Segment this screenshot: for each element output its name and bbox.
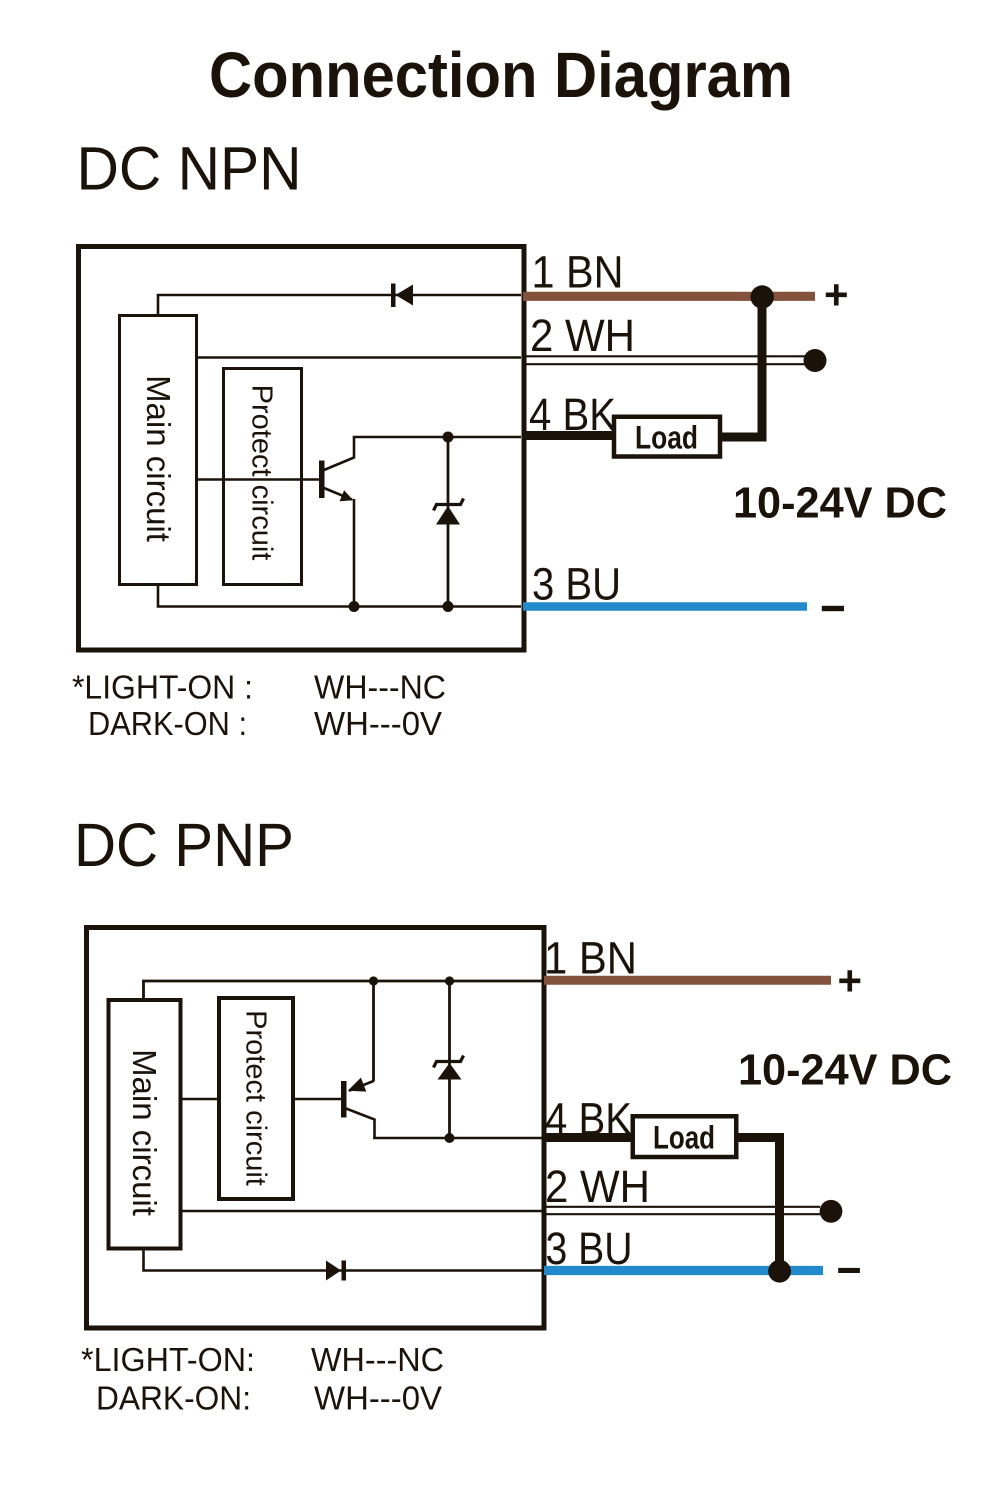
svg-text:*LIGHT-ON:: *LIGHT-ON: xyxy=(81,1341,255,1378)
junction: emitter/0V (NPN) xyxy=(349,601,360,612)
wire: +V top rail (PNP) xyxy=(144,981,545,998)
wire: load to BN vertical (NPN) xyxy=(721,300,762,437)
wire: Main-Protect-base link (NPN) xyxy=(197,478,320,481)
zener diode Z2 (PNP) xyxy=(434,1056,464,1080)
wire: emitter down to 0V rail (NPN) xyxy=(353,499,356,607)
wire: white WH output (PNP) xyxy=(544,1207,820,1214)
block: Protect circuit (NPN) xyxy=(224,369,302,585)
junction: BN/load node (NPN) xyxy=(751,285,774,308)
wire: black BK to load (NPN) xyxy=(523,431,614,440)
transistor Q1 emitter arrow (NPN) xyxy=(340,490,354,501)
block: Main circuit (PNP) xyxy=(109,1000,181,1249)
transistor Q1 collector lead (NPN) xyxy=(324,438,354,470)
terminal dot WH (PNP) xyxy=(820,1200,843,1223)
svg-text:DARK-ON :: DARK-ON : xyxy=(88,705,247,742)
svg-text:WH---0V: WH---0V xyxy=(314,1380,442,1417)
svg-text:Main circuit: Main circuit xyxy=(126,1049,163,1216)
zener diode Z1 lead (NPN) xyxy=(447,437,450,607)
wire: Main circuit top to BN rail (NPN) xyxy=(158,295,521,315)
transistor Q1 base bar (NPN) xyxy=(319,461,325,499)
wire: Main to pin 2 WH (PNP) xyxy=(179,1210,544,1213)
wire: black BK to load (PNP) xyxy=(544,1133,633,1142)
wire: blue BU supply (PNP) xyxy=(544,1266,823,1275)
svg-text:Load: Load xyxy=(635,420,698,456)
sensor outline box (NPN) xyxy=(79,247,525,651)
junction: zener/0V (NPN) xyxy=(443,601,454,612)
svg-text:Protect circuit: Protect circuit xyxy=(245,385,277,561)
transistor Q2 emitter arrow (PNP) xyxy=(348,1078,367,1092)
wire: brown BN supply (PNP) xyxy=(544,976,831,985)
svg-text:Main circuit: Main circuit xyxy=(140,375,177,542)
wire: load to minus vertical (PNP) xyxy=(737,1138,780,1272)
svg-text:DC PNP: DC PNP xyxy=(74,811,294,879)
load resistor box (NPN) xyxy=(614,417,720,457)
transistor Q2 collector lead (PNP) xyxy=(346,1109,375,1140)
svg-text:WH---0V: WH---0V xyxy=(314,705,442,742)
svg-text:2 WH: 2 WH xyxy=(545,1161,650,1212)
junction: zener/top rail (PNP) xyxy=(445,976,454,985)
transistor Q1 emitter lead (NPN) xyxy=(324,488,352,500)
junction: collector/zener node (PNP) xyxy=(445,1133,455,1143)
svg-text:Connection Diagram: Connection Diagram xyxy=(209,39,793,111)
minus terminal (NPN) xyxy=(822,606,844,611)
wire: Protect to base link (PNP) xyxy=(292,1098,342,1101)
svg-text:Protect circuit: Protect circuit xyxy=(239,1010,271,1186)
diode D1 reverse-protection (NPN) xyxy=(391,284,413,308)
transistor Q2 base bar (PNP) xyxy=(341,1081,347,1118)
svg-text:10-24V DC: 10-24V DC xyxy=(738,1047,952,1095)
wire: collector to pin 4 BK (PNP) xyxy=(373,1137,544,1140)
wire: collector to pin 4 BK (NPN) xyxy=(353,436,521,439)
sensor outline box (PNP) xyxy=(87,928,545,1329)
svg-text:1 BN: 1 BN xyxy=(532,247,624,298)
minus terminal (PNP) xyxy=(838,1268,860,1273)
wire: blue BU supply (NPN) xyxy=(523,602,807,611)
svg-text:2 WH: 2 WH xyxy=(530,310,635,361)
svg-text:*LIGHT-ON :: *LIGHT-ON : xyxy=(72,669,253,706)
svg-text:+: + xyxy=(838,957,863,1004)
block: Main circuit (NPN) xyxy=(120,316,197,585)
wire: Main bottom to BU rail (PNP) xyxy=(144,1250,545,1271)
svg-text:DARK-ON:: DARK-ON: xyxy=(96,1380,251,1417)
junction: emitter/top rail (PNP) xyxy=(369,976,378,985)
terminal dot WH (NPN) xyxy=(804,349,827,372)
svg-text:Load: Load xyxy=(653,1120,715,1156)
diode D2 on BU line (PNP) xyxy=(326,1261,346,1281)
wire: brown BN supply (NPN) xyxy=(523,292,815,301)
block: Protect circuit (PNP) xyxy=(219,998,293,1199)
junction: collector/zener node (NPN) xyxy=(443,432,454,443)
svg-text:WH---NC: WH---NC xyxy=(314,669,446,706)
svg-text:DC NPN: DC NPN xyxy=(77,135,302,203)
junction: load/BU node (PNP) xyxy=(768,1260,791,1283)
zener diode Z1 (NPN) xyxy=(434,499,464,525)
svg-text:+: + xyxy=(824,271,849,318)
zener diode Z2 lead (PNP) xyxy=(448,981,451,1138)
svg-text:3 BU: 3 BU xyxy=(532,559,621,610)
wire: white WH output (NPN) xyxy=(523,356,810,364)
wire: Main circuit to pin 2 WH (NPN) xyxy=(197,356,521,359)
svg-text:WH---NC: WH---NC xyxy=(311,1341,444,1378)
wire: Main to Protect link (PNP) xyxy=(179,1098,221,1101)
transistor Q2 emitter lead (PNP) xyxy=(349,981,374,1091)
wire: 0V rail (NPN) xyxy=(158,586,521,607)
load resistor box (PNP) xyxy=(633,1116,737,1157)
svg-text:10-24V DC: 10-24V DC xyxy=(733,480,947,528)
